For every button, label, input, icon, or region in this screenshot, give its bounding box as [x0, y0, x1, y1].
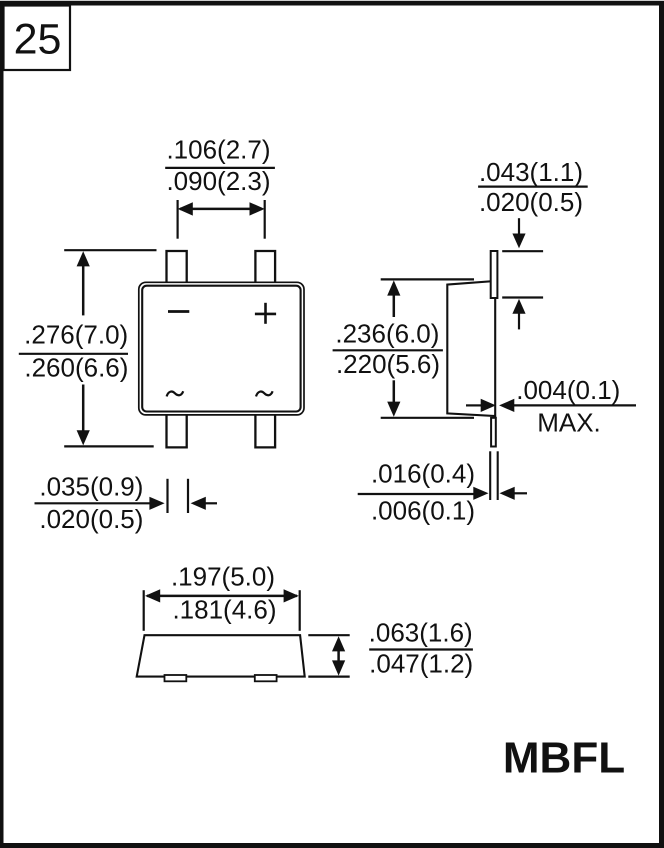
svg-text:.020(0.5): .020(0.5)	[39, 504, 143, 534]
svg-text:.016(0.4): .016(0.4)	[371, 459, 475, 489]
svg-text:.220(5.6): .220(5.6)	[336, 349, 440, 379]
svg-text:.006(0.1): .006(0.1)	[371, 496, 475, 526]
svg-text:.063(1.6): .063(1.6)	[369, 618, 473, 648]
svg-text:.004(0.1): .004(0.1)	[516, 375, 620, 405]
svg-text:.181(4.6): .181(4.6)	[172, 594, 276, 624]
svg-text:.035(0.9): .035(0.9)	[39, 471, 143, 501]
svg-text:.260(6.6): .260(6.6)	[24, 352, 128, 382]
svg-text:.236(6.0): .236(6.0)	[335, 318, 439, 348]
svg-text:.047(1.2): .047(1.2)	[369, 648, 473, 678]
svg-text:.043(1.1): .043(1.1)	[479, 157, 583, 187]
svg-text:.276(7.0): .276(7.0)	[24, 319, 128, 349]
svg-text:.020(0.5): .020(0.5)	[479, 187, 583, 217]
svg-text:MBFL: MBFL	[503, 733, 625, 782]
svg-text:25: 25	[14, 15, 62, 63]
svg-text:.106(2.7): .106(2.7)	[166, 135, 270, 165]
svg-text:MAX.: MAX.	[537, 407, 601, 437]
svg-text:.197(5.0): .197(5.0)	[171, 561, 275, 591]
svg-text:.090(2.3): .090(2.3)	[166, 166, 270, 196]
